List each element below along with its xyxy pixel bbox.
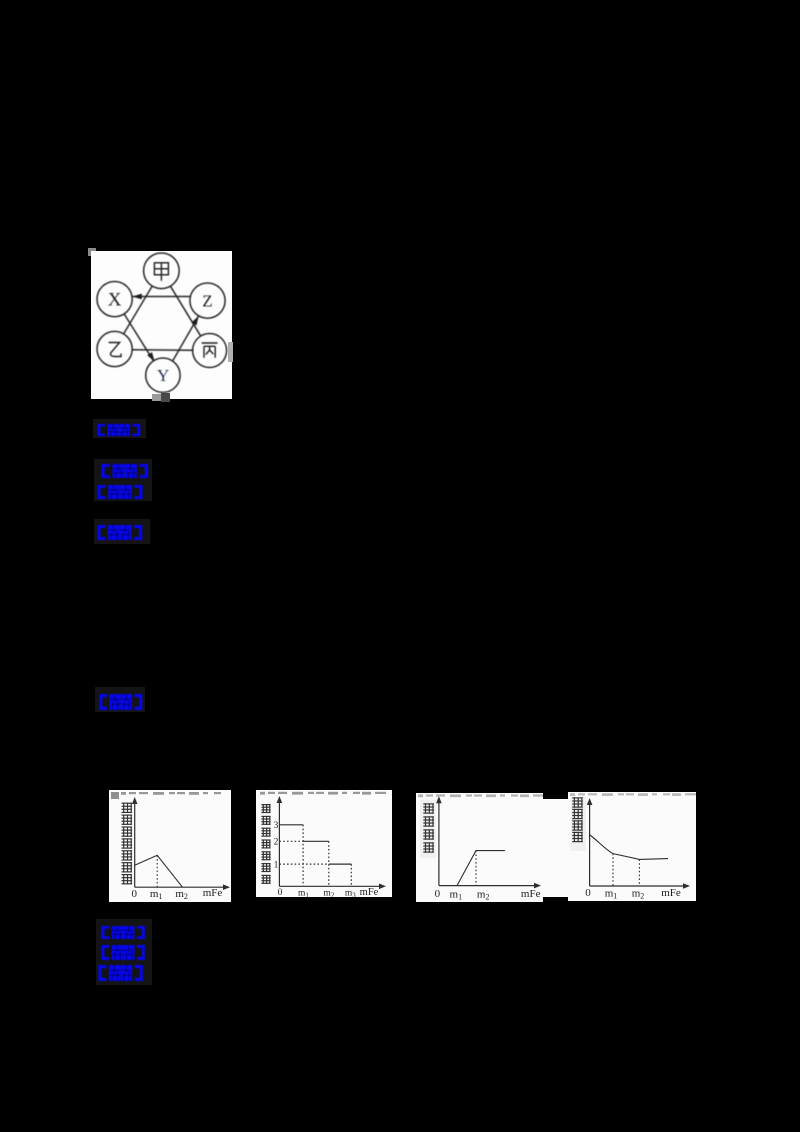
svg-text:mFe: mFe: [360, 887, 379, 897]
svg-text:m2: m2: [477, 889, 490, 902]
svg-text:3: 3: [274, 821, 279, 831]
svg-text:1: 1: [274, 861, 279, 871]
svg-text:m1: m1: [298, 889, 309, 898]
svg-text:0: 0: [585, 887, 591, 899]
svg-text:0: 0: [278, 888, 283, 897]
svg-text:2: 2: [274, 838, 279, 848]
svg-text:m3: m3: [345, 889, 356, 898]
svg-text:m1: m1: [150, 888, 163, 901]
svg-text:m1: m1: [605, 888, 618, 901]
svg-text:mFe: mFe: [203, 887, 223, 899]
svg-text:m1: m1: [450, 889, 463, 902]
svg-text:Y: Y: [157, 366, 169, 385]
svg-text:0: 0: [435, 888, 441, 900]
svg-text:m2: m2: [175, 888, 188, 901]
svg-text:m2: m2: [323, 889, 334, 898]
svg-text:Z: Z: [202, 292, 212, 311]
svg-text:mFe: mFe: [661, 887, 681, 899]
svg-text:mFe: mFe: [521, 888, 541, 900]
svg-text:X: X: [108, 290, 122, 311]
svg-text:0: 0: [132, 888, 138, 900]
svg-text:m2: m2: [632, 888, 645, 901]
